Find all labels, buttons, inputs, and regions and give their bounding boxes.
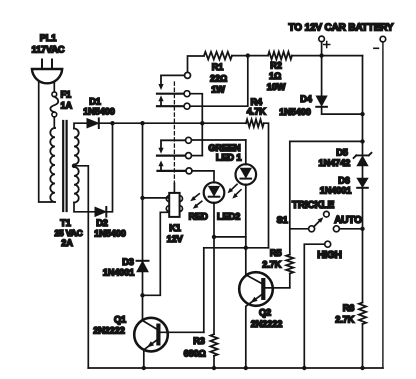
wire R5 to Q2 base [265, 274, 290, 288]
resistor R6 2.7K [335, 303, 366, 325]
svg-text:12V: 12V [167, 234, 184, 244]
svg-text:2N2222: 2N2222 [93, 326, 125, 336]
svg-text:1N4742: 1N4742 [319, 158, 351, 168]
svg-text:25 VAC: 25 VAC [54, 228, 82, 238]
wire D4 cathode to right vertical [322, 107, 363, 114]
arrow up group1 [158, 95, 163, 106]
node R6 bottom [360, 366, 364, 370]
svg-text:R1: R1 [212, 62, 224, 72]
node rail-D2 junction [110, 121, 114, 125]
wire Q2 collector node line [204, 247, 269, 249]
node auto junction [360, 227, 364, 231]
fuse F1 1A [50, 90, 72, 117]
switch S1 [277, 200, 363, 232]
svg-text:K1: K1 [169, 223, 181, 233]
plug PL1 117VAC [32, 33, 65, 83]
contact HIGH [317, 241, 341, 261]
wire secondary top lead to D1 [74, 123, 86, 128]
bottom rail [88, 367, 383, 369]
wire C3 to R1-R2 junction [190, 56, 248, 107]
diode D1 1N5400 [83, 97, 115, 129]
svg-text:1N5400: 1N5400 [279, 107, 311, 117]
diode D4 1N5400 [279, 94, 327, 117]
svg-text:HIGH: HIGH [317, 250, 341, 261]
node Q2 collector [244, 246, 248, 250]
svg-text:D5: D5 [336, 148, 348, 158]
wire C4 to LED1 anode [192, 139, 246, 141]
svg-text:Q2: Q2 [259, 308, 271, 318]
svg-text:R6: R6 [343, 303, 355, 313]
wire K1 coil bottom return [143, 212, 170, 295]
node Q2 emitter [244, 366, 248, 370]
svg-text:AUTO: AUTO [334, 215, 362, 226]
terminal plus [319, 36, 330, 47]
svg-text:1N4001: 1N4001 [103, 268, 135, 278]
svg-text:GREEN: GREEN [208, 143, 241, 153]
svg-text:2N2222: 2N2222 [251, 319, 283, 329]
node rail-K1 feed junction [140, 121, 144, 125]
svg-text:4.7K: 4.7K [247, 107, 266, 117]
contact C3 [184, 103, 190, 109]
svg-text:2.7K: 2.7K [335, 315, 354, 325]
contact C5 [186, 153, 192, 159]
wire K1 feed line from rail [142, 123, 144, 295]
contact C6 [186, 168, 192, 174]
wire center tap to bottom rail [74, 166, 88, 368]
relay K1 12V coil [166, 184, 183, 245]
svg-text:22Ω: 22Ω [210, 74, 227, 84]
wire plus terminal down to D4 [321, 42, 323, 96]
svg-text:PL1: PL1 [40, 33, 57, 43]
svg-text:LED 1: LED 1 [216, 153, 242, 163]
svg-text:2.7K: 2.7K [262, 260, 281, 270]
svg-text:1A: 1A [61, 101, 73, 111]
diode D3 1N4001 [103, 257, 149, 278]
node Q1 emitter [142, 366, 146, 370]
svg-text:D1: D1 [89, 97, 101, 107]
contact C2 [184, 91, 190, 97]
svg-text:1N4001: 1N4001 [320, 186, 352, 196]
node zener top junction [360, 139, 364, 143]
node plus terminal junction [319, 53, 323, 57]
svg-text:TO 12V CAR BATTERY: TO 12V CAR BATTERY [289, 23, 394, 34]
wire plug left lead down to primary bottom [39, 81, 51, 202]
svg-text:S1: S1 [277, 215, 288, 225]
LED1 emission arrows [228, 184, 242, 198]
diode D6 1N4001 [320, 176, 368, 196]
svg-text:1N5400: 1N5400 [83, 107, 115, 117]
contact C1 [185, 72, 191, 78]
contact C1 arm with arrow [158, 75, 184, 90]
svg-text:680Ω: 680Ω [184, 349, 206, 359]
svg-text:1Ω: 1Ω [269, 71, 281, 81]
dashed mechanical link relay [173, 82, 175, 184]
LED2 emission arrows [190, 194, 202, 209]
svg-text:R5: R5 [270, 248, 282, 258]
green LED1 [208, 140, 256, 248]
contact C4 [186, 137, 192, 143]
svg-text:1N5400: 1N5400 [94, 229, 126, 239]
terminal minus [374, 36, 386, 48]
wire S1 feed loop [290, 141, 363, 228]
svg-text:LED2: LED2 [217, 212, 240, 222]
resistor R3 680ohm [184, 334, 218, 368]
node K1 coil tap [140, 196, 144, 200]
red LED2 [189, 182, 241, 334]
node D3 line / coil return / Q1 collector [140, 293, 144, 297]
wire contact C1 to R1 [188, 56, 205, 72]
resistor R5 2.7K [262, 229, 293, 274]
zener D5 1N4742 [319, 148, 372, 169]
wire to K1 coil [143, 197, 170, 199]
node R1-R2 junction [246, 53, 250, 57]
wire R2 to right vertical [292, 55, 363, 57]
contact C6 arm [158, 170, 187, 172]
svg-text:D6: D6 [338, 176, 350, 186]
wire plug right lead to fuse [53, 82, 55, 92]
wire bridge LED2 to collector node [214, 236, 246, 238]
resistor R1 22ohm 1W [204, 52, 232, 95]
svg-text:117VAC: 117VAC [32, 45, 65, 55]
wire Q1 base riser [203, 248, 205, 332]
contact C3 arm [157, 105, 184, 107]
contact C5 arm [157, 155, 185, 157]
svg-text:TRICKLE: TRICKLE [292, 200, 335, 211]
svg-text:D3: D3 [122, 257, 134, 267]
wire main positive rail from D1 [99, 122, 246, 124]
wire HIGH to bottom rail [304, 244, 324, 368]
svg-text:F1: F1 [61, 90, 72, 100]
wire minus terminal to bottom rail [382, 42, 384, 368]
wire R4 to Q2 collector line [264, 123, 269, 248]
svg-text:RED: RED [189, 212, 209, 222]
wire secondary bottom lead to D2 [74, 203, 94, 212]
diode D2 1N5400 [94, 207, 126, 239]
node HIGH wire bottom [302, 366, 306, 370]
svg-text:R2: R2 [270, 61, 282, 71]
wire R1 to R2 [232, 55, 268, 57]
wire right vertical rail [362, 56, 364, 368]
wire C2 to riser [190, 94, 202, 156]
svg-text:T1: T1 [60, 218, 71, 228]
svg-text:D2: D2 [96, 218, 108, 228]
node rail-contact riser junction [200, 121, 204, 125]
node LED2 cathode junction [212, 235, 216, 239]
node D4 junction [360, 112, 364, 116]
svg-text:R4: R4 [251, 97, 264, 107]
svg-text:2A: 2A [61, 238, 73, 248]
wire fuse to primary top [53, 117, 56, 128]
svg-text:Q1: Q1 [114, 315, 126, 325]
wire C6 to LED2 anode [192, 171, 214, 183]
transistor Q1 2N2222 [93, 295, 204, 368]
transformer T1 25VAC 2A [50, 121, 82, 248]
svg-text:D4: D4 [300, 94, 313, 104]
resistor R4 4.7K [246, 97, 266, 127]
svg-text:R3: R3 [193, 336, 205, 346]
svg-text:1W: 1W [211, 85, 225, 95]
wire D2 cathode riser to rail [106, 123, 112, 212]
wire C5 to riser [192, 155, 203, 157]
resistor R2 1ohm 10W [267, 52, 292, 92]
arrow up group2 [158, 161, 163, 171]
transistor Q2 2N2222 [239, 248, 290, 368]
svg-text:10W: 10W [267, 82, 286, 92]
node secondary center tap [72, 164, 76, 168]
node R3 bottom [212, 366, 216, 370]
contact C2 arm [157, 93, 184, 95]
contact C4 arm with arrow [158, 140, 185, 153]
